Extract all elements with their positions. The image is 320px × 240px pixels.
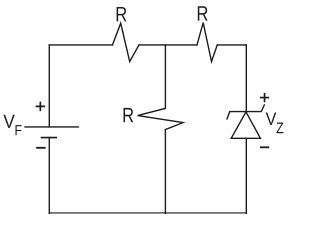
label R1 value R xyxy=(117,7,127,21)
resistor R3 zigzag (vertical) xyxy=(138,108,183,129)
battery VF negative short plate xyxy=(42,137,57,139)
wire right upper (to zener cathode) xyxy=(245,45,247,112)
label R3 value R xyxy=(124,108,134,122)
label VZ xyxy=(266,113,277,125)
wire left upper (to battery positive plate) xyxy=(48,45,50,127)
label zener minus sign xyxy=(260,146,269,148)
label VF subscript F xyxy=(16,125,22,135)
resistor R1 zigzag xyxy=(113,23,140,61)
wire middle lower xyxy=(164,130,166,214)
wire top-right segment xyxy=(217,44,246,46)
label zener plus sign xyxy=(260,93,269,102)
zener diode VZ cathode bar with bent ends xyxy=(227,105,264,119)
label VZ subscript Z xyxy=(277,123,284,134)
battery VF positive long plate xyxy=(25,126,78,128)
wire top-middle segment xyxy=(139,44,197,46)
wire top-left segment xyxy=(49,44,112,46)
wire right lower xyxy=(245,138,247,213)
wire bottom xyxy=(49,212,246,214)
wire middle upper xyxy=(164,45,166,109)
label battery plus sign xyxy=(36,102,46,112)
resistor R2 zigzag xyxy=(197,23,217,62)
zener diode VZ anode triangle xyxy=(231,112,260,138)
label VF xyxy=(3,115,14,128)
label battery minus sign xyxy=(36,147,45,149)
wire left lower xyxy=(48,138,50,214)
label R2 value R xyxy=(198,6,208,20)
